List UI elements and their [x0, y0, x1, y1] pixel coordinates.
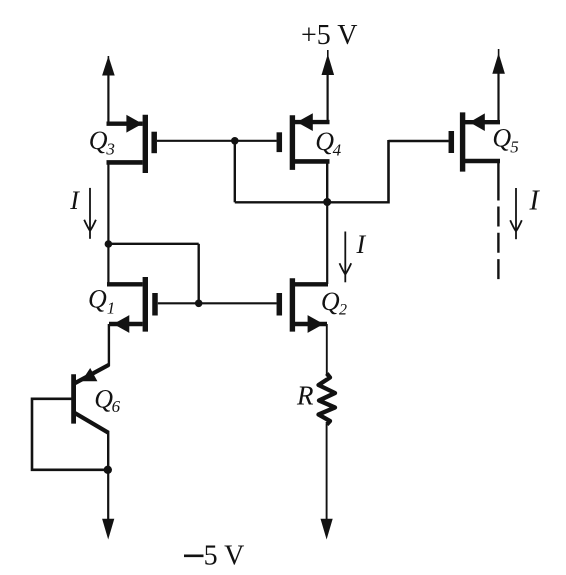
wire: step to Q5 gate	[389, 140, 449, 143]
transistor Q2 (NMOS)	[279, 278, 328, 333]
svg-text:Q: Q	[88, 284, 107, 313]
transistor Q1 (NMOS)	[107, 277, 155, 333]
transistor Q6 (PNP BJT)	[74, 365, 109, 470]
svg-text:R: R	[296, 380, 314, 410]
svg-text:Q: Q	[321, 287, 340, 316]
wire: Q6 base loop to collector node	[32, 399, 106, 470]
wire: gate bus Q1 to Q2	[158, 302, 277, 304]
svg-text:2: 2	[339, 301, 347, 318]
node B (Q3 drain / Q1 drain)	[105, 240, 113, 248]
svg-text:5 V: 5 V	[204, 541, 245, 572]
label Q3	[89, 126, 115, 159]
svg-text:Q: Q	[315, 127, 334, 156]
wire: node B down to Q1	[107, 244, 109, 284]
wire: +5V lead above Q5 with up arrow	[492, 49, 505, 122]
svg-text:5: 5	[510, 138, 519, 157]
svg-text:3: 3	[105, 140, 115, 159]
svg-text:4: 4	[333, 141, 342, 160]
node D (Q4 drain junction)	[323, 198, 331, 206]
svg-text:I: I	[69, 186, 80, 215]
wire: +5V lead above Q4 with up arrow	[322, 50, 335, 122]
wire: node B right	[108, 243, 198, 245]
wire: Q1 source down to Q6 emitter	[108, 324, 110, 366]
wire: Q2 source down to R	[326, 324, 328, 375]
node E (Q6 base/collector tie)	[104, 466, 112, 474]
wire: center node down to Q2 drain	[326, 202, 328, 284]
wire: down to gate node	[197, 244, 199, 303]
label Q6	[94, 384, 120, 416]
transistor Q3 (PMOS)	[107, 115, 155, 173]
current arrow left	[84, 188, 96, 239]
svg-text:1: 1	[107, 298, 116, 317]
resistor R	[319, 374, 336, 425]
svg-text:I: I	[529, 186, 541, 217]
label Q1	[88, 284, 115, 317]
label Q4	[315, 127, 341, 160]
svg-text:+5 V: +5 V	[301, 20, 358, 51]
current arrow middle	[340, 232, 352, 283]
transistor Q5 (PMOS)	[451, 112, 500, 171]
wire: Q3 drain down to node	[107, 162, 109, 244]
svg-text:I: I	[356, 230, 367, 259]
wire: gate bus Q3 to Q4	[157, 140, 277, 142]
svg-text:Q: Q	[492, 123, 511, 152]
wire: R down to -5V arrow	[321, 424, 333, 540]
wire: node A down	[234, 141, 236, 203]
node C (gate bus junction lower)	[195, 300, 203, 308]
svg-text:6: 6	[112, 397, 121, 416]
wire: step up	[387, 140, 390, 204]
current arrow right	[510, 188, 522, 239]
node A (gate bus junction)	[231, 137, 239, 145]
transistor Q4 (PMOS)	[279, 113, 329, 170]
wire: Q5 drain down (dashed tail)	[497, 161, 499, 281]
label Q5	[492, 123, 518, 156]
wire: Q4 drain down to center node	[326, 161, 328, 202]
wire: horizontal run to step	[235, 201, 389, 203]
svg-text:Q: Q	[94, 384, 113, 413]
label Q2	[321, 287, 347, 318]
wire: node E down to -5V arrow	[102, 470, 114, 540]
wire: +5V lead above Q3 with up arrow	[102, 56, 115, 124]
-5 V supply label	[184, 541, 244, 572]
svg-text:Q: Q	[89, 126, 108, 155]
